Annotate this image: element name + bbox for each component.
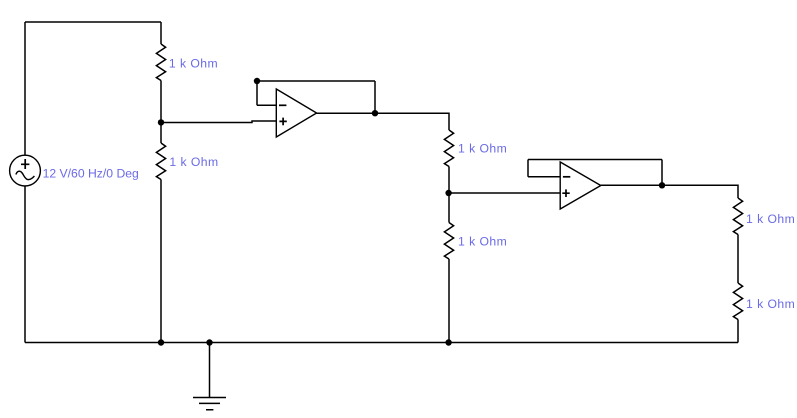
resistor R6 xyxy=(733,283,742,320)
wire U1 output to R3 column xyxy=(317,113,449,130)
svg-text:1 k Ohm: 1 k Ohm xyxy=(458,141,507,155)
node U1 feedback corner dot xyxy=(254,78,260,84)
node A junction dot xyxy=(158,119,164,125)
node bottom rail / R2 junction dot xyxy=(158,339,164,345)
ground xyxy=(193,343,226,410)
op-amp U1 xyxy=(276,89,316,137)
wire node B to op-amp U2 plus input xyxy=(449,192,560,194)
op-amp U2 xyxy=(560,162,601,209)
wire left rail lower xyxy=(24,186,26,343)
svg-text:1 k Ohm: 1 k Ohm xyxy=(746,212,795,226)
wire top rail xyxy=(25,21,161,23)
wire bottom rail xyxy=(25,342,738,344)
wire U2 feedback vertical left xyxy=(527,160,529,177)
wire R4 to bottom rail xyxy=(448,259,450,343)
wire U1 feedback vertical left xyxy=(256,81,258,105)
node bottom rail / ground junction dot xyxy=(206,339,212,345)
wire U2 minus input xyxy=(528,176,560,178)
node bottom rail / R4 junction dot xyxy=(445,339,451,345)
resistor R2 xyxy=(156,143,165,180)
wire R5 to R6 xyxy=(737,235,739,284)
node B junction dot xyxy=(445,190,451,196)
resistor R1 xyxy=(156,44,165,81)
svg-text:1 k Ohm: 1 k Ohm xyxy=(169,155,218,169)
svg-text:1 k Ohm: 1 k Ohm xyxy=(746,297,795,311)
wire U2 feedback vertical right xyxy=(661,160,663,186)
node U2 output junction dot xyxy=(659,182,665,188)
svg-text:12 V/60 Hz/0 Deg: 12 V/60 Hz/0 Deg xyxy=(43,166,139,180)
wire node A to op-amp U1 plus input (with jog) xyxy=(161,121,276,123)
wire U1 feedback top rail xyxy=(257,80,375,82)
svg-text:1 k Ohm: 1 k Ohm xyxy=(169,57,218,71)
wire R1 to node A xyxy=(160,81,162,123)
wire U1 feedback vertical right xyxy=(374,81,376,113)
svg-text:1 k Ohm: 1 k Ohm xyxy=(458,234,507,248)
wire R6 to bottom rail xyxy=(737,320,739,343)
wire R2 to bottom rail xyxy=(160,180,162,343)
resistor R3 xyxy=(444,130,453,167)
resistor R4 xyxy=(444,223,453,260)
node U1 output junction dot xyxy=(372,110,378,116)
wire left rail upper xyxy=(24,22,26,156)
wire U1 minus input xyxy=(257,104,276,106)
AC voltage source V1 xyxy=(10,155,41,186)
wire R3 to node B xyxy=(448,167,450,194)
wire U2 output to R5 column xyxy=(601,185,738,198)
resistor R5 xyxy=(733,198,742,235)
wire node A to R2 xyxy=(160,122,162,143)
wire node B to R4 xyxy=(448,193,450,223)
wire col1 top lead xyxy=(160,22,162,44)
wire U2 feedback top rail xyxy=(528,159,662,161)
